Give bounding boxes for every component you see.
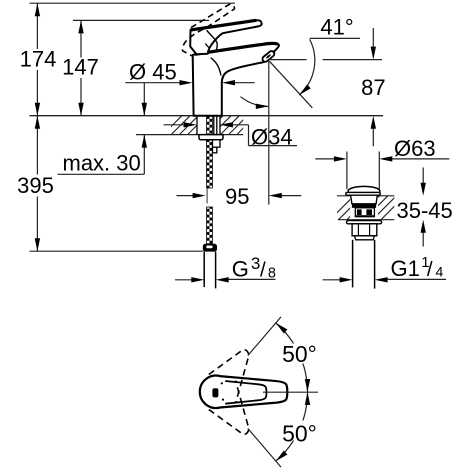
supply hose braided (below break) [207,207,213,244]
top view: dashed handle rotated down 50 [209,381,249,435]
top view: dashed handle rotated up 50 [209,349,249,403]
drain washer flange [347,221,382,224]
mounting hole edges [196,116,198,135]
spout aerator [261,50,275,63]
spout height reference line 87 [269,59,307,61]
svg-text:Ø63: Ø63 [394,136,436,161]
dimension diameter 63 [315,152,449,190]
dimension 174 [36,3,38,116]
dimension max. 30 [58,83,145,175]
top view: handle dots [221,382,223,384]
mounting stud in hole [213,116,215,134]
drain lower ring [355,215,374,217]
svg-text:174: 174 [20,47,57,72]
dimension 87 [372,28,374,146]
svg-text:4: 4 [436,264,444,280]
drain hex nut [352,224,377,236]
deck top surface line [30,115,384,117]
top view: upper 50 arc [276,323,308,392]
svg-text:147: 147 [62,55,99,80]
svg-text:max. 30: max. 30 [63,151,141,176]
mounting washer [199,135,223,140]
dimension 95 [177,195,302,197]
svg-text:Ø34: Ø34 [251,125,293,150]
wire top reference line 174 [30,2,236,4]
faucet body and spout [193,43,279,115]
hose break edge line [206,188,208,204]
svg-text:50°: 50° [282,421,317,447]
deck bottom line [136,134,199,136]
svg-text:G: G [232,257,249,282]
hose connector nut [203,244,217,252]
deck hatching [163,116,256,135]
svg-text:Ø 45: Ø 45 [129,60,177,85]
sink deck hatching [330,196,405,220]
svg-text:/: / [427,258,433,281]
G1 1/4 label [323,278,446,280]
supply hose braided (upper in hole) [207,116,213,134]
svg-text:50°: 50° [282,341,317,367]
G 3/8 label [175,278,275,280]
top view: center line [263,391,318,393]
top view: solid handle outline [200,376,287,408]
drain dome cap [348,186,380,192]
svg-text:87: 87 [361,75,385,100]
handle interior contour [207,30,217,50]
drain rim [355,236,375,240]
drain tailpipe [352,240,354,288]
faucet lever handle [190,20,261,54]
dimension 147 [80,20,82,115]
svg-text:95: 95 [225,184,249,209]
body-spout blend line [211,58,221,76]
drain cap flange [346,192,380,195]
svg-text:/: / [260,258,266,281]
svg-text:3: 3 [251,254,260,273]
top view: lower 50 arc [276,392,308,461]
svg-text:41°: 41° [320,14,353,39]
svg-text:35-45: 35-45 [397,198,453,223]
dimension diameter 34 [164,125,297,146]
svg-text:395: 395 [17,173,54,198]
top view: lower radial line [248,428,281,467]
dimension diameter 45 [125,82,254,84]
top view: handle button [212,388,218,397]
41 deg upper arc [299,39,315,95]
spout outlet extension line [268,61,270,205]
wire bottom reference line 395 [30,250,204,252]
41 deg outlet direction line [270,61,313,108]
dashed raised handle [182,4,234,56]
dimension 395 [36,116,38,252]
G 3/8 connection tube [203,252,205,287]
drain cage with slots [355,208,374,217]
wire reference line 147 [73,19,209,21]
drain dark ring [352,204,376,208]
top view: handle inner contour [225,381,266,404]
sink deck lines [337,195,394,197]
svg-text:G1: G1 [391,256,420,281]
drain neck [351,195,378,204]
50 degree labels [280,344,321,364]
41 deg lower arc [241,97,269,107]
stud nut steps [213,140,221,147]
supply hose braided (lower) [207,140,213,188]
dimension 35-45 [422,168,424,247]
svg-text:8: 8 [268,266,276,282]
top view: upper radial line [248,317,281,356]
